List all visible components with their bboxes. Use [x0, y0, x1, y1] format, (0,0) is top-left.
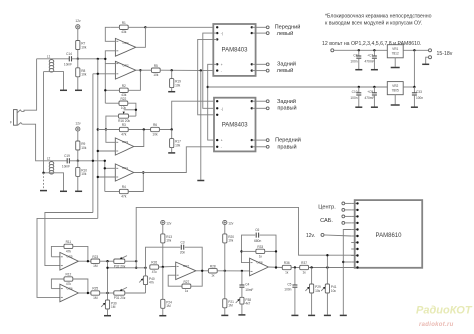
svg-text:10k: 10k	[81, 146, 87, 150]
svg-text:C3: C3	[180, 241, 184, 245]
svg-text:R25: R25	[92, 287, 98, 291]
node 5v bus	[207, 86, 209, 88]
svg-text:12 вольт на ОР1,2,3,4,5,6,7,8: 12 вольт на ОР1,2,3,4,5,6,7,8 и РАМ8610.	[322, 41, 421, 47]
svg-text:C6: C6	[255, 228, 259, 232]
wire jack ring to rail2	[22, 124, 40, 161]
wire VR2 to 12v node	[403, 86, 414, 88]
op-amp OP5	[60, 252, 79, 270]
potentiometer P29 10k (to ground)	[305, 268, 321, 315]
svg-text:10k: 10k	[81, 172, 87, 176]
wire rail2 right part	[69, 160, 104, 162]
pins PAM8403-1 left	[216, 26, 223, 73]
svg-text:10к: 10к	[331, 289, 337, 293]
output terminals front right	[252, 137, 301, 151]
svg-text:7812: 7812	[392, 51, 399, 55]
capacitor C10 100n	[350, 87, 361, 107]
svg-text:+: +	[221, 139, 223, 143]
capacitor C7 470mF	[364, 50, 376, 69]
wire OP2 output to R5	[136, 69, 152, 71]
capacitor C8 100n	[350, 50, 361, 69]
resistor R7 10k	[76, 41, 87, 50]
node R6/R17	[171, 128, 173, 130]
op-amp OP6	[60, 284, 79, 302]
ground (L2 branch)	[60, 190, 67, 192]
wire OP8 output	[268, 266, 282, 269]
resistor R20 10k	[223, 225, 235, 271]
node R28 / R20	[224, 270, 226, 272]
svg-text:PAM8403: PAM8403	[222, 122, 249, 128]
supply 12v (bias1)	[75, 19, 81, 29]
node R26/R13	[162, 266, 164, 268]
svg-text:R4: R4	[122, 185, 126, 189]
capacitor C14 10mF (series in rail1)	[64, 52, 72, 67]
crossover rail A to OP5	[45, 213, 93, 266]
ground (P30)	[104, 315, 111, 317]
wire to OP2 minus	[105, 63, 115, 65]
svg-text:PAM8610: PAM8610	[376, 233, 403, 239]
IC PAM8610	[355, 200, 423, 268]
node C7	[373, 49, 375, 51]
svg-text:VR1: VR1	[392, 47, 398, 51]
svg-text:100n: 100n	[350, 96, 357, 100]
node mix rail top	[106, 260, 108, 262]
wire rail1 right part	[72, 58, 105, 60]
resistor R24 1M (divider to ground)	[161, 267, 172, 315]
svg-text:10к: 10к	[315, 289, 321, 293]
capacitor C3 20n (OP7 feedback)	[146, 241, 203, 271]
potentiometer R16 20k	[106, 109, 137, 130]
node OP7 out	[201, 270, 203, 272]
ground (R10)	[75, 190, 82, 192]
wire rails to OP2 + input	[93, 73, 116, 75]
resistor R5 10k	[151, 64, 160, 77]
svg-text:47к: 47к	[152, 270, 158, 274]
ground (R17)	[168, 152, 175, 154]
ground (C7)	[371, 69, 378, 71]
svg-text:Задний: Задний	[277, 98, 296, 105]
svg-text:470mF: 470mF	[364, 59, 374, 63]
svg-text:10к: 10к	[166, 239, 172, 243]
resistor R25 1M	[91, 287, 114, 300]
svg-text:САБ.: САБ.	[320, 218, 333, 224]
resistor R33 1k (feedback)	[240, 245, 277, 258]
svg-text:R6: R6	[153, 123, 157, 127]
svg-text:РадиоКОТ: РадиоКОТ	[416, 305, 473, 317]
node C8	[358, 49, 360, 51]
svg-text:4к7: 4к7	[245, 302, 250, 306]
svg-text:OP6: OP6	[67, 286, 73, 290]
node mix line / P32	[135, 267, 137, 269]
svg-text:Передний: Передний	[275, 137, 301, 144]
svg-text:C8: C8	[353, 53, 357, 57]
wire R9 to rail2	[77, 150, 79, 161]
node P41 / center bus drop	[326, 266, 328, 268]
wire R1 to node	[128, 26, 145, 28]
ground (P29)	[308, 314, 315, 316]
supply 12v (R13)	[161, 220, 172, 225]
dashed wire junction to ground	[43, 173, 45, 190]
node R3 left	[105, 128, 107, 130]
resistor R37 1k	[300, 261, 355, 274]
svg-text:-: -	[221, 145, 222, 149]
svg-text:*Блокировочная керамика непоср: *Блокировочная керамика непосредственно	[325, 14, 432, 20]
svg-text:15-18v: 15-18v	[437, 51, 453, 57]
svg-text:+C9: +C9	[367, 90, 373, 94]
IC PAM8403 U1	[213, 24, 255, 76]
svg-text:C19: C19	[64, 154, 70, 158]
svg-text:10mF: 10mF	[245, 288, 253, 292]
svg-text:1M: 1M	[93, 264, 98, 268]
svg-text:+: +	[221, 63, 223, 67]
regulator VR1 7812	[387, 45, 403, 67]
node OP1 output	[142, 171, 144, 173]
op-amp OP4	[115, 38, 135, 56]
svg-text:к выводам всех модулей и корпу: к выводам всех модулей и корпусам ОУ.	[325, 20, 422, 27]
node mix line / C3 loop	[144, 267, 146, 269]
svg-text:R3: R3	[122, 123, 126, 127]
wire rail1 left part	[37, 58, 69, 60]
potentiometer P41 10k (to ground)	[321, 268, 337, 315]
svg-text:Центр.: Центр.	[318, 205, 336, 211]
wire OP3 output up to R3/R6 node	[134, 130, 144, 147]
svg-text:47k: 47k	[66, 282, 72, 286]
potentiometer P30 1M (to ground)	[101, 300, 117, 315]
regulator VR2 7805	[387, 82, 403, 105]
ground (C10)	[355, 106, 362, 108]
svg-text:100n: 100n	[284, 288, 291, 292]
capacitor C6 680n (feedback)	[242, 228, 277, 267]
node P29	[310, 266, 312, 268]
ground (R19)	[168, 91, 175, 93]
svg-text:47k: 47k	[66, 249, 72, 253]
output terminals rear right	[252, 98, 297, 112]
wire L1 bottom right branch to ground	[52, 72, 64, 90]
output terminal 15-18v top	[429, 49, 432, 52]
ground (C8)	[355, 69, 362, 71]
svg-text:47k: 47k	[121, 194, 127, 198]
resistor R27 1k (OP7 feedback)	[168, 271, 202, 293]
wire OP5 output	[78, 260, 91, 262]
svg-text:C4: C4	[245, 283, 249, 287]
wire rail end down through R22 row	[104, 90, 106, 103]
wire 12v down to row2	[413, 50, 415, 87]
node rail1 / rail B	[97, 58, 99, 60]
svg-text:R28: R28	[210, 264, 216, 268]
node rail2 end	[104, 160, 106, 162]
svg-text:10mF: 10mF	[64, 63, 72, 67]
svg-text:R23: R23	[92, 255, 98, 259]
node rail B / OP3 input	[97, 150, 99, 152]
ground (C9)	[371, 106, 378, 108]
wire OP6 output	[78, 292, 91, 294]
node C5	[294, 266, 296, 268]
wire jack tip to rail1	[22, 59, 37, 112]
jack ring contact	[18, 123, 23, 126]
svg-text:Задний: Задний	[277, 61, 296, 68]
potentiometer P32 20k	[114, 256, 136, 269]
wire output gnd terminal	[426, 57, 429, 63]
node rail B / OP1 input	[97, 176, 99, 178]
svg-text:Р31 20к: Р31 20к	[114, 296, 126, 300]
svg-text:12v.: 12v.	[306, 233, 315, 239]
svg-text:-: -	[221, 69, 222, 73]
node VR1 out	[413, 49, 415, 51]
ground (15-18v return)	[422, 63, 429, 65]
svg-text:R26: R26	[151, 261, 157, 265]
wire PAM1 power pin to 5v bus	[208, 64, 218, 140]
svg-text:OP8: OP8	[257, 260, 263, 264]
inductor L1	[47, 55, 54, 72]
svg-text:12v: 12v	[228, 221, 234, 225]
crossover rail B to OP6	[37, 218, 98, 297]
svg-text:100n: 100n	[350, 59, 357, 63]
resistor R19 10k (to ground)	[170, 70, 182, 91]
resistor R12 47k (OP6 feedback)	[51, 273, 88, 293]
wire PAM1 pin3 chain down to PAM2 pin3	[198, 39, 218, 114]
node rail2/R9	[77, 160, 79, 162]
svg-text:левый: левый	[277, 67, 294, 74]
node P32 / center bus	[135, 260, 137, 262]
svg-text:-|: -|	[221, 107, 223, 111]
op-amp OP3	[115, 138, 134, 155]
wire R6 to corner up to PAM8403-2 pin1	[159, 101, 217, 129]
ground (L1 branch)	[60, 89, 67, 91]
resistor R2 43k (feedback)	[105, 70, 140, 97]
wire OP4 output up to node	[136, 27, 146, 47]
svg-text:PAM8403: PAM8403	[222, 48, 249, 54]
svg-text:20n: 20n	[180, 251, 186, 255]
ground (C5)	[291, 314, 298, 316]
svg-text:10k: 10k	[81, 73, 87, 77]
svg-text:10k: 10k	[175, 83, 181, 87]
capacitor C4 10mF (input coupling to ground)	[239, 270, 253, 292]
jack J1 body	[10, 110, 17, 126]
svg-text:12v: 12v	[166, 221, 172, 225]
svg-text:R12: R12	[65, 273, 71, 277]
svg-text:L2: L2	[47, 157, 51, 161]
node rail2 / rail A crossing	[92, 160, 94, 162]
svg-text:470mF: 470mF	[364, 96, 374, 100]
svg-text:OP4: OP4	[123, 41, 129, 45]
svg-text:VR2: VR2	[392, 84, 398, 88]
resistor R11 47k (OP5 feedback)	[51, 240, 88, 261]
svg-text:10k: 10k	[175, 143, 181, 147]
potentiometer P40 47k (P31 to mix node)	[139, 268, 155, 293]
wire rail B to OP1 + input	[98, 176, 116, 178]
svg-text:R1: R1	[122, 21, 126, 25]
svg-text:правый: правый	[277, 105, 296, 112]
svg-text:47к: 47к	[149, 281, 155, 285]
svg-text:OP1: OP1	[122, 166, 128, 170]
wire rail2 left part	[40, 160, 67, 162]
resistor R26 47k	[150, 261, 176, 274]
wire L1 bottom left branch to tall vertical	[44, 71, 52, 73]
node OP2 output / feedback	[139, 69, 141, 71]
wire 12v to R9	[77, 131, 79, 141]
wire center bus drop	[326, 255, 328, 267]
capacitor C5 100n (to ground)	[284, 268, 297, 315]
supply 12v (R20)	[223, 220, 234, 225]
pins PAM8403-2 left	[216, 100, 223, 149]
op-amp OP8	[250, 258, 269, 276]
output terminals front left	[252, 24, 301, 38]
wire P32 branch down to mix line	[135, 261, 137, 268]
op-amp OP1	[115, 164, 134, 181]
node rail B / OP2 input	[97, 73, 99, 75]
resistor R36 1k	[282, 261, 299, 274]
node C9	[373, 86, 375, 88]
ground (mid rail)	[197, 180, 204, 182]
node OP5 out	[87, 260, 89, 262]
node OP1 minus	[104, 167, 106, 169]
svg-text:43k: 43k	[121, 30, 127, 34]
svg-text:1М: 1М	[166, 304, 171, 308]
ground rail PAM8610	[342, 230, 351, 315]
pins PAM8403-2 right	[251, 100, 253, 148]
svg-text:OP5: OP5	[67, 255, 73, 259]
rail B vertical (to OP6)	[97, 59, 99, 219]
wire OP4 inverting input	[105, 27, 115, 41]
center bus wire from P32 over to OP8 input	[136, 207, 357, 261]
op-amp OP7	[176, 262, 196, 280]
ground (P38)	[238, 314, 245, 316]
node mix line / rail	[106, 267, 108, 269]
svg-text:R5: R5	[154, 64, 158, 68]
wire VR1 out to terminals	[403, 49, 428, 51]
svg-text:R27: R27	[183, 280, 189, 284]
svg-text:R11: R11	[66, 240, 72, 244]
svg-text:100n: 100n	[416, 96, 423, 100]
svg-text:Передний: Передний	[275, 24, 301, 31]
node OP6 out	[87, 292, 89, 294]
node VR2/C33	[413, 86, 415, 88]
capacitor C19 10mF (series in rail2)	[62, 154, 70, 169]
svg-text:C10: C10	[352, 90, 358, 94]
ground (C33)	[411, 106, 418, 108]
svg-text:12v: 12v	[75, 19, 81, 23]
node OP8 out	[275, 266, 277, 268]
node OP4 output / R1	[144, 26, 146, 28]
resistor R23 1M	[91, 255, 114, 268]
tall vertical wire from L1 to L2 junction	[43, 72, 45, 173]
svg-text:10mF: 10mF	[62, 165, 70, 169]
IC PAM8403 U2	[214, 98, 256, 152]
op-amp OP2	[115, 61, 135, 79]
wire OP3 inverting input	[106, 130, 115, 143]
svg-text:47k: 47k	[121, 132, 127, 136]
capacitor C33 100n	[412, 87, 423, 107]
svg-text:7805: 7805	[392, 88, 399, 92]
svg-text:radiokot.ru: radiokot.ru	[419, 322, 454, 328]
terminal САБ	[320, 215, 351, 224]
svg-text:R22: R22	[120, 97, 126, 101]
rail A vertical (to OP5)	[92, 74, 94, 213]
node R5/R19	[171, 69, 173, 71]
svg-text:680n: 680n	[254, 239, 261, 243]
wire mix rail vertical	[107, 261, 109, 300]
svg-text:R37: R37	[301, 261, 307, 265]
wire ground rail vertical	[200, 71, 202, 180]
svg-text:OP3: OP3	[122, 140, 128, 144]
ground (R24)	[159, 315, 166, 317]
wire OP4 + input from rail1 end	[105, 51, 115, 59]
svg-text:R2: R2	[122, 84, 126, 88]
svg-text:левый: левый	[277, 30, 294, 37]
wire rail B to OP3 + input	[98, 150, 116, 152]
resistor R8 10k (rail1 to ground)	[76, 59, 87, 90]
wire R7 to rail1	[77, 50, 79, 59]
node C10	[358, 86, 360, 88]
svg-text:OP2: OP2	[123, 64, 129, 68]
resistor R21 1M (divider to ground)	[223, 271, 234, 315]
pins PAM8610 left column	[351, 202, 358, 268]
supply 12v (bias2)	[75, 121, 81, 131]
node R3/R6/OP3out	[143, 128, 145, 130]
ground (dashed chassis)	[40, 190, 47, 192]
svg-text:1М: 1М	[111, 305, 116, 309]
ground (R21)	[221, 314, 228, 316]
potentiometer P38 4k7	[236, 287, 252, 314]
pins PAM8403-1 right	[251, 26, 253, 72]
node input ground rail top	[200, 69, 202, 71]
inductor L2	[47, 157, 54, 174]
svg-text:10к: 10к	[228, 239, 234, 243]
wire OP1 inverting input	[105, 167, 116, 169]
resistor R10 10k (rail2 to ground)	[76, 161, 88, 191]
resistor R13 10k	[161, 225, 173, 267]
mix line wire	[108, 267, 146, 269]
svg-text:1M: 1M	[93, 296, 98, 300]
svg-text:+C7: +C7	[367, 53, 373, 57]
potentiometer P31 20k	[114, 287, 146, 300]
wire 5v bus to regulator	[208, 86, 388, 88]
ground (VR1)	[391, 67, 400, 69]
terminal Центр +	[318, 202, 351, 211]
svg-text:1М: 1М	[228, 304, 233, 308]
node L2/vertical junction	[42, 172, 44, 174]
resistor R9 10k	[76, 141, 87, 150]
resistor R4 47k (feedback)	[105, 173, 144, 199]
node center bus	[326, 254, 328, 256]
node rail1/R7	[77, 58, 79, 60]
resistor R28 1k	[208, 264, 249, 277]
svg-text:10k: 10k	[81, 45, 87, 49]
resistor R22 10k	[105, 97, 136, 116]
wire rail2 end down to OP1 inverting network	[104, 161, 106, 192]
ground (R8)	[75, 89, 82, 91]
wire OP2 inverting input from rail1 end	[104, 59, 106, 90]
wire input to VR1	[334, 49, 388, 51]
svg-text:10k: 10k	[152, 132, 158, 136]
wire OP1 output to PAM8403-2 pin5	[134, 147, 217, 173]
svg-text:F: F	[10, 120, 12, 124]
wire R5 to PAM8403-1 pin5	[160, 69, 217, 71]
wire node to PAM8403-1 pin1	[145, 26, 217, 28]
output terminals rear left	[252, 61, 296, 75]
svg-text:C14: C14	[66, 52, 72, 56]
terminal 12v	[306, 233, 351, 239]
svg-text:-|: -|	[221, 32, 223, 36]
svg-text:OP7: OP7	[183, 264, 189, 268]
wire OP7 output	[196, 270, 209, 272]
capacitor C9 470mF	[364, 87, 376, 107]
svg-text:C33: C33	[416, 90, 422, 94]
wire L2 bottom to junction	[44, 172, 52, 174]
svg-text:R36: R36	[284, 261, 290, 265]
resistor R17 10k (to ground)	[170, 130, 182, 153]
resistor R1 43k (feedback)	[110, 21, 128, 34]
output terminal 15-18v bottom	[429, 56, 432, 59]
